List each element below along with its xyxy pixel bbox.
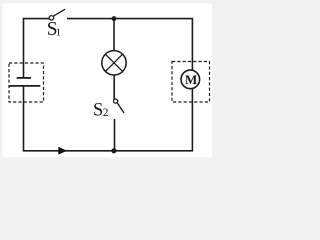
battery dashed box	[9, 63, 44, 102]
junction node A (top)	[112, 16, 117, 21]
motor dashed box	[172, 62, 210, 103]
junction node B (bottom)	[111, 148, 116, 153]
wire top-left segment and left side upper (S1 to battery top plate)	[24, 19, 50, 78]
switch S1 pivot circle	[49, 16, 53, 20]
battery short plate (negative)	[17, 77, 31, 79]
lamp L circle	[102, 51, 126, 75]
svg-text:M: M	[185, 72, 197, 87]
wire middle branch upper (node A to lamp)	[113, 19, 115, 52]
lamp X cross line 1	[105, 54, 122, 71]
wire middle branch mid (lamp to S2)	[113, 75, 115, 100]
battery long plate (positive)	[9, 85, 41, 87]
switch S2 blade (open)	[117, 103, 124, 113]
motor M circle	[181, 70, 200, 89]
current direction arrow on bottom wire	[58, 147, 67, 155]
lamp X cross line 2	[105, 54, 122, 71]
switch S2 pivot circle	[114, 99, 118, 103]
page background	[0, 0, 224, 164]
switch S1 blade (open)	[53, 9, 65, 16]
wire middle branch lower (S2 to node B)	[114, 119, 116, 151]
wire top-right, right side, bottom side, left side lower (S1 to battery bottom plate)	[24, 19, 193, 151]
